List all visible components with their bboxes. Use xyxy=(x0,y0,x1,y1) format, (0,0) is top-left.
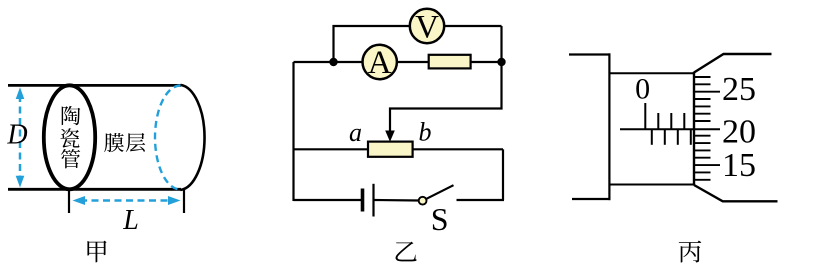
wiper arrowhead xyxy=(385,131,395,142)
voltmeter V xyxy=(410,9,444,43)
text 管 xyxy=(61,149,80,168)
svg-text:L: L xyxy=(122,205,139,236)
sleeve bottom edge xyxy=(609,184,694,186)
dimension D arrow (vertical dashed double arrow) xyxy=(16,87,25,187)
battery long plate xyxy=(372,184,374,217)
frame vertical xyxy=(608,53,610,200)
wire bottom rail left xyxy=(294,199,363,201)
svg-text:D: D xyxy=(6,120,27,151)
wire voltmeter branch xyxy=(334,26,502,62)
battery short plate xyxy=(361,189,365,212)
svg-text:a: a xyxy=(349,118,362,147)
svg-text:S: S xyxy=(431,201,449,237)
rheostat body R xyxy=(368,142,413,157)
sleeve top edge xyxy=(609,72,694,74)
thimble top slant and cap xyxy=(694,54,772,73)
wire right lower vertical xyxy=(502,149,504,200)
resistor R0 xyxy=(429,55,471,69)
wire switch to right corner xyxy=(457,199,505,201)
wire rheostat row left xyxy=(294,148,371,150)
switch blade xyxy=(426,185,453,199)
svg-text:15: 15 xyxy=(722,147,756,184)
cylinder top line xyxy=(8,84,181,87)
svg-text:20: 20 xyxy=(722,114,756,151)
dimension L arrow (horizontal dashed double arrow) xyxy=(73,196,181,205)
caption 乙 xyxy=(396,242,417,262)
ceramic tube ellipse xyxy=(44,85,95,189)
main scale 0 tick xyxy=(644,103,646,129)
svg-text:A: A xyxy=(368,45,392,81)
right end cap solid arc xyxy=(181,85,205,190)
frame top stub xyxy=(569,53,611,55)
main scale mm ticks xyxy=(658,113,684,129)
text 陶 xyxy=(62,106,81,125)
wire battery to switch xyxy=(375,199,419,202)
text 层 xyxy=(126,133,145,152)
thimble bottom slant and cap xyxy=(694,185,778,201)
wire left vertical xyxy=(292,62,294,201)
main scale half-mm ticks xyxy=(652,129,691,145)
thimble edge xyxy=(693,72,695,186)
svg-text:b: b xyxy=(419,117,432,146)
text 膜 xyxy=(104,133,123,152)
svg-text:0: 0 xyxy=(635,73,650,106)
right end cap hidden edge (cyan dashed arc) xyxy=(155,86,181,190)
frame bottom stub xyxy=(572,198,611,200)
junction node left xyxy=(329,58,337,66)
caption 丙 xyxy=(679,241,701,263)
switch pivot circle xyxy=(419,197,427,205)
svg-text:25: 25 xyxy=(722,71,756,108)
caption 甲 xyxy=(87,241,106,263)
svg-text:V: V xyxy=(415,10,439,46)
cylinder bottom line xyxy=(8,188,181,191)
L extent tick left xyxy=(68,189,70,213)
junction node right xyxy=(497,58,505,66)
wire main measuring row xyxy=(294,61,502,63)
wire right vertical + wiper feed xyxy=(390,26,502,134)
thimble scale ticks xyxy=(694,77,720,180)
main scale datum line (extends as 20 tick) xyxy=(620,128,720,130)
wire rheostat row right xyxy=(411,148,503,150)
text 瓷 xyxy=(60,128,79,147)
L extent tick right xyxy=(183,189,185,213)
ammeter A xyxy=(363,45,397,79)
